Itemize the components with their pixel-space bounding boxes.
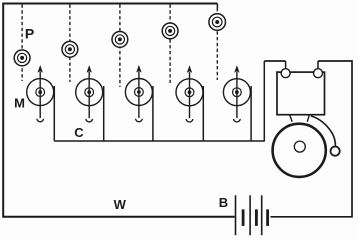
svg-text:M: M <box>14 96 25 111</box>
svg-text:B: B <box>219 195 228 210</box>
svg-text:W: W <box>114 197 127 212</box>
svg-text:P: P <box>25 26 34 42</box>
svg-text:C: C <box>74 125 84 140</box>
